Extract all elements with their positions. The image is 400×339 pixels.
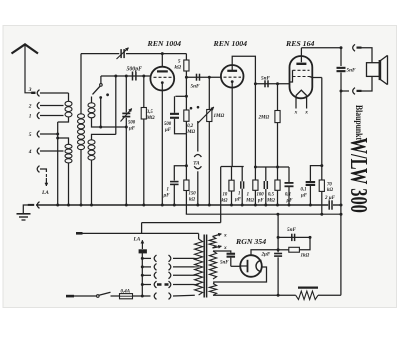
svg-text:5: 5 bbox=[29, 132, 32, 138]
svg-text:W/LW 300: W/LW 300 bbox=[345, 138, 372, 213]
svg-text:2µF: 2µF bbox=[261, 253, 271, 258]
svg-text:70: 70 bbox=[327, 183, 332, 188]
svg-text:500pF: 500pF bbox=[127, 67, 143, 73]
svg-text:1: 1 bbox=[29, 114, 32, 120]
svg-text:kΩ: kΩ bbox=[327, 188, 333, 193]
svg-text:10: 10 bbox=[223, 193, 228, 198]
svg-text:kΩ: kΩ bbox=[189, 198, 195, 203]
svg-text:1: 1 bbox=[167, 188, 169, 193]
svg-text:µF: µF bbox=[164, 128, 172, 133]
svg-text:5nF: 5nF bbox=[191, 84, 200, 90]
svg-text:3: 3 bbox=[28, 87, 32, 93]
svg-text:Blaupunkt: Blaupunkt bbox=[353, 105, 363, 141]
svg-text:MΩ: MΩ bbox=[186, 130, 195, 135]
svg-text:RGN 354: RGN 354 bbox=[235, 237, 266, 246]
svg-text:500: 500 bbox=[164, 122, 172, 127]
svg-text:µF: µF bbox=[234, 198, 242, 203]
svg-text:pF: pF bbox=[257, 199, 264, 204]
svg-text:2 µF: 2 µF bbox=[324, 196, 336, 201]
svg-text:MΩ: MΩ bbox=[245, 199, 254, 204]
svg-text:REN 1004: REN 1004 bbox=[213, 39, 248, 48]
svg-text:2: 2 bbox=[28, 104, 32, 110]
svg-text:MΩ: MΩ bbox=[146, 116, 155, 121]
svg-text:1: 1 bbox=[247, 193, 249, 198]
svg-text:µF: µF bbox=[163, 194, 171, 199]
svg-text:5nF: 5nF bbox=[347, 68, 356, 74]
svg-text:0,1: 0,1 bbox=[285, 193, 291, 198]
svg-text:LA: LA bbox=[41, 190, 49, 196]
svg-text:x: x bbox=[223, 233, 227, 239]
svg-text:LA: LA bbox=[133, 237, 141, 243]
svg-text:2MΩ: 2MΩ bbox=[258, 116, 270, 121]
svg-text:150: 150 bbox=[189, 192, 197, 197]
svg-text:4: 4 bbox=[28, 149, 32, 155]
svg-text:TA: TA bbox=[193, 161, 200, 167]
svg-text:5nF: 5nF bbox=[220, 261, 229, 266]
svg-text:1MΩ: 1MΩ bbox=[214, 114, 225, 119]
svg-text:5nF: 5nF bbox=[261, 76, 270, 82]
svg-text:µF: µF bbox=[128, 127, 136, 132]
svg-text:0,1: 0,1 bbox=[301, 188, 307, 193]
svg-text:x: x bbox=[294, 110, 298, 116]
svg-text:0,5: 0,5 bbox=[268, 193, 275, 198]
svg-text:0,2: 0,2 bbox=[187, 124, 194, 129]
svg-text:kΩ: kΩ bbox=[175, 65, 182, 71]
svg-text:x: x bbox=[223, 245, 227, 251]
svg-text:3,5: 3,5 bbox=[146, 110, 154, 115]
svg-text:x: x bbox=[304, 110, 308, 116]
svg-text:kΩ: kΩ bbox=[222, 199, 228, 204]
svg-text:500: 500 bbox=[128, 121, 136, 126]
svg-text:µF: µF bbox=[300, 194, 308, 199]
svg-text:1: 1 bbox=[238, 192, 240, 197]
svg-text:100: 100 bbox=[257, 193, 265, 198]
svg-text:MΩ: MΩ bbox=[266, 199, 275, 204]
svg-text:1kΩ: 1kΩ bbox=[301, 254, 310, 259]
svg-text:0,4A: 0,4A bbox=[121, 290, 131, 295]
svg-text:5nF: 5nF bbox=[287, 227, 296, 233]
svg-text:RES 164: RES 164 bbox=[285, 39, 314, 48]
svg-text:REN 1004: REN 1004 bbox=[147, 39, 182, 48]
